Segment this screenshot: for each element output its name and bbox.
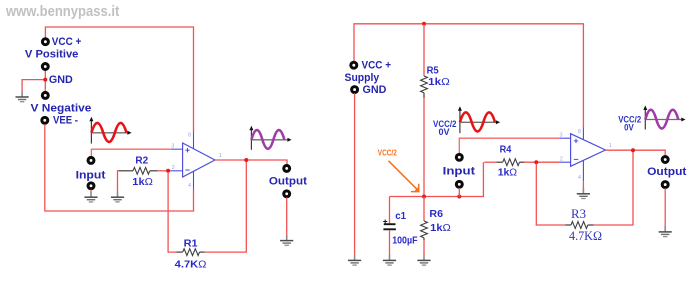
- node pin2 junction: [166, 169, 170, 173]
- wire feedback to output (right leg): [594, 150, 634, 225]
- node R4 feedback junction: [534, 160, 538, 164]
- svg-text:V Negative: V Negative: [31, 103, 92, 115]
- wire input to pin3 (right): [459, 138, 559, 153]
- wire t2 to t3 with GND tee: [44, 70, 46, 92]
- ground (right rail bottom): [348, 255, 361, 265]
- svg-text:1: 1: [219, 153, 222, 159]
- svg-text:Supply: Supply: [345, 72, 381, 84]
- terminal t4 VEE: [42, 117, 48, 123]
- svg-text:VEE -: VEE -: [53, 115, 78, 127]
- ground (under input): [84, 192, 97, 202]
- resistor R6 (vertical): [421, 221, 428, 240]
- svg-text:1kΩ: 1kΩ: [498, 167, 518, 179]
- terminal Output lower (right): [662, 182, 668, 188]
- arrow VCC/2 pointer (orange): [389, 161, 420, 192]
- node GND junction: [43, 78, 47, 82]
- wire input lower to VCC/2 rail: [458, 188, 460, 197]
- resistor R5 (vertical): [421, 76, 428, 98]
- wire GND branch: [22, 80, 45, 92]
- terminal Input lower (right): [456, 181, 462, 187]
- svg-text:R6: R6: [429, 208, 443, 220]
- node R5 top junction: [422, 22, 426, 26]
- terminal VCC+: [42, 39, 48, 45]
- ground (under c1): [383, 255, 396, 265]
- wire R4 right to pin2: [524, 161, 560, 163]
- wire VEE rail to op-amp V- pin: [45, 124, 194, 211]
- terminal t3: [42, 92, 48, 98]
- svg-text:0V: 0V: [624, 123, 634, 133]
- svg-text:0V: 0V: [439, 127, 450, 137]
- terminal GND (right): [352, 87, 358, 93]
- ground (under output): [280, 235, 293, 245]
- terminal Input lower: [88, 183, 94, 189]
- svg-text:1kΩ: 1kΩ: [428, 76, 450, 88]
- output sine icon right (purple): [643, 106, 685, 130]
- node output junction (right): [631, 148, 635, 152]
- wire R6 top lead: [423, 197, 425, 222]
- svg-text:2: 2: [172, 165, 175, 171]
- svg-text:1: 1: [609, 143, 612, 149]
- wire feedback right leg to output: [205, 160, 247, 252]
- wire feedback left leg: [168, 172, 176, 252]
- wire c1 top lead: [389, 197, 391, 224]
- terminal Output lower: [284, 191, 290, 197]
- wire input to op-amp pin3: [91, 149, 171, 156]
- svg-text:R3: R3: [571, 206, 586, 221]
- terminal Input upper (right): [456, 154, 462, 160]
- svg-text:4: 4: [188, 183, 191, 189]
- wire op-amp V- to ground: [582, 181, 584, 190]
- svg-text:c1: c1: [395, 210, 406, 222]
- wire R5 bottom to VCC/2 node: [423, 98, 425, 197]
- wire VCC top rail: [354, 24, 583, 128]
- svg-text:VCC +: VCC +: [362, 60, 392, 72]
- svg-text:3: 3: [560, 133, 563, 139]
- svg-text:1kΩ: 1kΩ: [430, 222, 451, 234]
- ground (under R2): [111, 192, 124, 202]
- svg-text:VCC/2: VCC/2: [378, 147, 397, 157]
- wire op-amp output: [215, 160, 287, 164]
- svg-text:4: 4: [578, 175, 581, 181]
- svg-text:R2: R2: [135, 155, 148, 167]
- capacitor c1: [383, 220, 396, 230]
- svg-text:Input: Input: [76, 169, 106, 181]
- node output junction: [244, 158, 248, 162]
- svg-text:R5: R5: [427, 64, 439, 76]
- op-amp U1: [171, 132, 215, 190]
- resistor R2: [119, 167, 158, 174]
- signal sine icon right (red): [458, 106, 500, 133]
- ground (under R6): [417, 255, 430, 265]
- resistor R3: [566, 222, 594, 229]
- svg-text:R1: R1: [184, 238, 198, 250]
- output sine icon (purple): [249, 126, 291, 150]
- ground (right output): [659, 226, 672, 236]
- node VCC/2 input junction: [457, 195, 461, 199]
- wire c1 bottom lead: [389, 230, 391, 255]
- resistor R1: [177, 249, 205, 256]
- svg-text:1kΩ: 1kΩ: [132, 176, 153, 188]
- svg-text:8: 8: [578, 129, 581, 135]
- watermark www.bennypass.it: [6, 3, 119, 20]
- svg-text:Input: Input: [443, 165, 476, 177]
- node VCC/2 R6 junction: [422, 195, 426, 199]
- wire R2 left lead to ground: [118, 171, 119, 192]
- op-amp U2: [560, 128, 606, 182]
- wire VCC+ terminal stub / top rail / op-amp V+ feed: [45, 27, 193, 132]
- svg-text:GND: GND: [363, 84, 387, 96]
- wire R5 top lead: [423, 24, 425, 76]
- svg-text:V Positive: V Positive: [25, 48, 79, 60]
- svg-text:4.7KΩ: 4.7KΩ: [569, 228, 602, 243]
- wire feedback down and right: [536, 163, 565, 225]
- wire input lower to ground: [90, 190, 92, 193]
- signal source sine icon (red): [89, 117, 131, 144]
- svg-text:Output: Output: [269, 176, 307, 188]
- ground (op-amp): [577, 188, 590, 198]
- terminal Input upper: [88, 157, 94, 163]
- svg-text:Output: Output: [647, 166, 687, 178]
- terminal VCC+ (right): [351, 62, 357, 68]
- terminal t2: [42, 64, 48, 70]
- wire GND terminal down to ground: [354, 93, 356, 255]
- svg-text:8: 8: [188, 133, 191, 139]
- wire op-amp output (right): [606, 150, 666, 155]
- svg-text:2: 2: [560, 157, 563, 163]
- ground (left GND symbol): [16, 91, 29, 101]
- wire output lower to ground (right): [664, 188, 666, 230]
- svg-text:VCC +: VCC +: [52, 36, 82, 48]
- svg-text:R4: R4: [500, 143, 512, 155]
- wire R4 left lead: [484, 161, 496, 163]
- svg-text:GND: GND: [49, 74, 73, 86]
- svg-text:100µF: 100µF: [392, 235, 418, 247]
- svg-text:3: 3: [171, 144, 174, 150]
- wire R6 bottom lead: [423, 240, 425, 255]
- terminal Output upper: [284, 165, 290, 171]
- wire output lower to ground: [286, 198, 288, 239]
- svg-text:4.7KΩ: 4.7KΩ: [175, 259, 207, 271]
- terminal Output upper (right): [662, 157, 668, 163]
- wire R2 right to pin2: [158, 170, 172, 172]
- wire VCC/2 rail: [390, 162, 484, 196]
- resistor R4: [497, 159, 524, 166]
